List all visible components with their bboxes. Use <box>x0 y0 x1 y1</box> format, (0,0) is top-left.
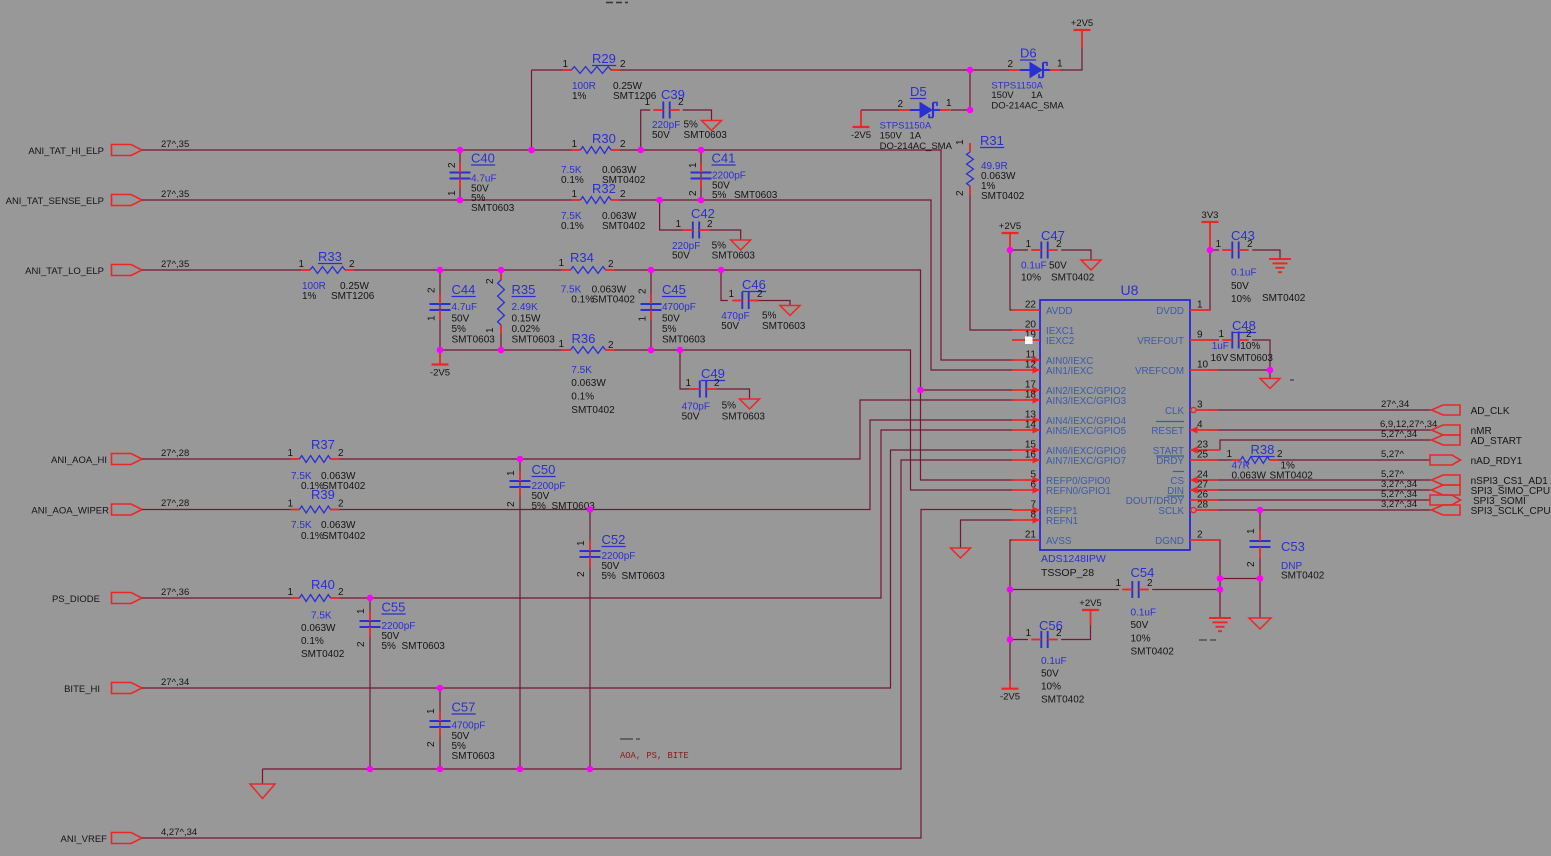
svg-text:1: 1 <box>558 258 564 269</box>
ground C47 <box>1081 260 1101 270</box>
resistor R32 <box>572 199 581 201</box>
svg-text:0.1uF: 0.1uF <box>1041 656 1067 667</box>
svg-text:1: 1 <box>1215 239 1221 250</box>
svg-text:1: 1 <box>287 499 293 510</box>
svg-text:2: 2 <box>955 190 966 196</box>
svg-text:CLK: CLK <box>1165 406 1185 417</box>
svg-text:0.1%: 0.1% <box>301 636 324 647</box>
pin 27 DIN <box>1190 489 1218 491</box>
svg-text:ANI_TAT_LO_ELP: ANI_TAT_LO_ELP <box>25 266 104 277</box>
svg-text:-2V5: -2V5 <box>851 130 871 141</box>
junction (680,350) <box>677 347 684 354</box>
svg-text:27^,34: 27^,34 <box>1381 399 1409 410</box>
svg-text:SMT0603: SMT0603 <box>1230 353 1274 364</box>
pin 11 AIN0/IEXC <box>1012 359 1040 361</box>
svg-text:AIN5/IEXC/GPIO5: AIN5/IEXC/GPIO5 <box>1046 426 1127 437</box>
wire ANI_VREF row to REFP1 riser <box>142 510 1012 839</box>
junction (590,509.5) <box>587 506 594 513</box>
wire VREFCOM ground drop <box>1269 370 1271 379</box>
svg-text:27^,35: 27^,35 <box>161 259 189 270</box>
svg-text:1: 1 <box>1025 628 1031 639</box>
svg-text:REFN0/GPIO1: REFN0/GPIO1 <box>1046 486 1111 497</box>
wire R36 row left <box>440 349 562 351</box>
power +2V5 (C56) <box>1082 609 1099 611</box>
capacitor C41 <box>691 172 712 174</box>
svg-text:SMT0402: SMT0402 <box>602 221 646 232</box>
svg-text:1uF: 1uF <box>1212 341 1229 352</box>
svg-text:1: 1 <box>298 259 304 270</box>
svg-text:SMT0402: SMT0402 <box>981 191 1025 202</box>
wire C57 column <box>439 688 441 769</box>
svg-text:1: 1 <box>356 608 367 614</box>
svg-text:D5: D5 <box>910 84 927 99</box>
capacitor C47 <box>1040 242 1042 259</box>
op-amp U8 ADS1248IPW body <box>1040 300 1190 550</box>
port SPI3_SOMI <box>1430 495 1461 505</box>
pin 23 START <box>1190 449 1220 451</box>
svg-text:AD_START: AD_START <box>1471 436 1522 447</box>
wire C42 to ground <box>709 230 741 240</box>
capacitor C57 <box>430 720 451 722</box>
svg-text:50V: 50V <box>672 251 690 262</box>
port ANI_VREF <box>112 833 143 844</box>
junction (1220,589.5) <box>1217 586 1224 593</box>
pin 21 AVSS <box>1012 539 1040 541</box>
wire C39 branch <box>641 110 651 150</box>
wire R33 to R34 <box>354 269 562 271</box>
wire D5 pin1 to junction <box>951 109 971 111</box>
capacitor C52 <box>580 550 601 552</box>
svg-text:2: 2 <box>338 499 344 510</box>
svg-text:SMT0603: SMT0603 <box>722 412 766 423</box>
wire capacitor ground bus to AIN7 riser <box>263 460 1013 769</box>
pin 24 CS <box>1190 479 1218 481</box>
wire C46 to ground <box>754 301 790 306</box>
junction (1220,578.5) <box>1217 575 1224 582</box>
svg-text:2.49K: 2.49K <box>512 302 538 313</box>
wire C45 column <box>650 270 652 350</box>
svg-text:SMT0402: SMT0402 <box>1262 293 1306 304</box>
svg-text:0.1uF: 0.1uF <box>1131 608 1157 619</box>
svg-text:2: 2 <box>338 448 344 459</box>
svg-text:2: 2 <box>1247 239 1253 250</box>
svg-text:27^,28: 27^,28 <box>161 448 189 459</box>
svg-text:SMT0603: SMT0603 <box>622 571 666 582</box>
svg-text:VREFCOM: VREFCOM <box>1135 366 1184 377</box>
svg-text:27^,28: 27^,28 <box>161 498 189 509</box>
svg-text:AIN7/IEXC/GPIO7: AIN7/IEXC/GPIO7 <box>1046 456 1126 467</box>
wire START to AD_START port <box>1220 440 1433 450</box>
svg-text:1: 1 <box>1197 300 1203 311</box>
wire C43 to earth ground <box>1252 250 1280 259</box>
svg-text:2: 2 <box>338 587 344 598</box>
svg-text:0.1%: 0.1% <box>561 221 584 232</box>
wire VREFOUT to C48 <box>1208 339 1219 341</box>
svg-text:1: 1 <box>675 219 681 230</box>
svg-text:2: 2 <box>620 189 626 200</box>
port ANI_TAT_SENSE_ELP <box>112 195 143 206</box>
pin 14 AIN5/IEXC/GPIO5 <box>1012 429 1040 431</box>
svg-text:2: 2 <box>608 340 614 351</box>
svg-text:4700pF: 4700pF <box>662 302 696 313</box>
svg-text:2: 2 <box>447 162 458 168</box>
pin 25 DRDY <box>1190 459 1218 461</box>
blanket note AOA, PS, BITE <box>620 738 633 740</box>
svg-text:SMT0603: SMT0603 <box>734 190 778 201</box>
svg-text:C45: C45 <box>662 282 686 297</box>
port AD_CLK <box>1432 405 1461 415</box>
earth ground C43 <box>1269 258 1291 260</box>
port ANI_AOA_WIPER <box>112 504 143 515</box>
wire C48 to VREFCOM corner <box>1252 340 1270 370</box>
svg-text:2: 2 <box>356 641 367 647</box>
junction (1270,370) <box>1267 367 1274 374</box>
artifact dashes near DGND <box>1199 639 1207 641</box>
svg-text:1%: 1% <box>302 291 317 302</box>
svg-text:2: 2 <box>707 219 713 230</box>
wire C53 bottom to ground <box>1259 558 1261 618</box>
wire R38 to nAD_RDY1 port <box>1279 459 1431 461</box>
svg-text:2: 2 <box>638 288 649 294</box>
port ANI_AOA_HI <box>112 454 143 465</box>
svg-text:1: 1 <box>638 316 649 322</box>
svg-text:50V: 50V <box>652 130 670 141</box>
svg-text:SMT0402: SMT0402 <box>1051 273 1095 284</box>
resistor R39 <box>291 509 300 511</box>
svg-text:SMT1206: SMT1206 <box>331 291 375 302</box>
wire C47 to ground <box>1061 250 1091 260</box>
pin 16 AIN7/IEXC/GPIO7 <box>1012 459 1040 461</box>
pin 28 SCLK <box>1190 509 1218 511</box>
svg-text:5,27^,34: 5,27^,34 <box>1381 429 1417 440</box>
wire AVDD column from +2V5 <box>1010 250 1012 310</box>
ground REFN1 <box>951 548 971 558</box>
wire C56 row <box>1010 639 1028 641</box>
svg-text:R38: R38 <box>1251 442 1275 457</box>
svg-text:3: 3 <box>1197 400 1203 411</box>
svg-text:1: 1 <box>685 378 691 389</box>
junction (970,70) <box>967 67 974 74</box>
svg-text:50V: 50V <box>1041 669 1059 680</box>
svg-text:SMT0603: SMT0603 <box>762 321 806 332</box>
svg-text:5%: 5% <box>382 641 397 652</box>
svg-text:27^,36: 27^,36 <box>161 587 189 598</box>
wire AVSS column <box>1010 540 1012 680</box>
wire RESET row to port <box>1208 429 1432 431</box>
svg-text:SMT0402: SMT0402 <box>1281 571 1325 582</box>
svg-text:1: 1 <box>644 97 650 108</box>
capacitor C53 DNP <box>1250 540 1271 542</box>
wire R36 output to REFN0 riser <box>615 350 1013 490</box>
junction (501,270) <box>498 267 505 274</box>
svg-text:22: 22 <box>1025 300 1037 311</box>
pin 9 VREFOUT <box>1190 339 1218 341</box>
svg-text:2: 2 <box>620 59 626 70</box>
svg-text:50V: 50V <box>452 314 470 325</box>
svg-text:27^,34: 27^,34 <box>161 677 189 688</box>
svg-text:C50: C50 <box>532 462 556 477</box>
wire C56 to +2V5 corner <box>1061 625 1090 640</box>
svg-text:C41: C41 <box>712 151 736 166</box>
svg-text:DO-214AC_SMA: DO-214AC_SMA <box>880 141 953 152</box>
svg-text:21: 21 <box>1025 530 1037 541</box>
svg-text:2: 2 <box>1056 239 1062 250</box>
svg-text:2: 2 <box>620 139 626 150</box>
port nAD_RDY1 <box>1430 455 1461 465</box>
wire C39 to ground <box>683 110 712 121</box>
junction (701,150) <box>698 147 705 154</box>
svg-text:1: 1 <box>427 315 438 321</box>
svg-text:R32: R32 <box>592 181 616 196</box>
wire C44 column <box>439 270 441 350</box>
wire DRDY to R38 <box>1208 459 1232 461</box>
svg-text:10%: 10% <box>1021 273 1041 284</box>
svg-text:16V: 16V <box>1211 353 1229 364</box>
svg-text:2: 2 <box>426 741 437 747</box>
svg-text:D6: D6 <box>1020 46 1037 61</box>
svg-text:ANI_AOA_HI: ANI_AOA_HI <box>51 455 107 466</box>
wire ANI_TAT_SENSE row to R32 <box>142 199 572 201</box>
svg-text:nAD_RDY1: nAD_RDY1 <box>1471 456 1523 467</box>
svg-text:1: 1 <box>955 139 966 145</box>
svg-text:+2V5: +2V5 <box>999 221 1021 232</box>
power +2V5 (C47) <box>1002 232 1019 234</box>
junction (970,110) <box>967 107 974 114</box>
svg-text:SMT0603: SMT0603 <box>471 203 515 214</box>
port ANI_TAT_HI_ELP <box>112 145 143 156</box>
pin 17 AIN2/IEXC/GPIO2 <box>1012 389 1040 391</box>
junction (590,769) <box>587 766 594 773</box>
capacitor C44 <box>430 303 451 305</box>
wire D6 to +2V5 corner <box>1059 48 1082 70</box>
wire ANI_TAT_LO row to R33 <box>142 269 301 271</box>
no-connect square IEXC2 <box>1025 337 1033 345</box>
svg-text:AOA, PS, BITE: AOA, PS, BITE <box>620 751 689 761</box>
svg-text:U8: U8 <box>1121 282 1139 298</box>
svg-text:1%: 1% <box>572 91 587 102</box>
svg-text:R40: R40 <box>311 577 335 592</box>
svg-text:2: 2 <box>897 99 903 110</box>
svg-text:4.7uF: 4.7uF <box>452 302 478 313</box>
svg-text:SMT0603: SMT0603 <box>712 251 756 262</box>
capacitor C54 <box>1131 581 1133 598</box>
svg-text:AD_CLK: AD_CLK <box>1471 406 1510 417</box>
capacitor C45 <box>641 303 662 305</box>
port BITE_HI <box>112 683 143 694</box>
svg-text:0.063W: 0.063W <box>321 520 356 531</box>
junction (440,769) <box>437 766 444 773</box>
wire ANI_AOA_HI row to R37 <box>142 458 291 460</box>
port SPI3_SCLK_CPU <box>1432 505 1461 515</box>
svg-text:AVDD: AVDD <box>1046 306 1073 317</box>
wire DGND to C53 link <box>1220 578 1260 580</box>
resistor R38 <box>1232 459 1241 461</box>
pin 1 DVDD <box>1190 309 1210 311</box>
svg-text:ANI_TAT_SENSE_ELP: ANI_TAT_SENSE_ELP <box>6 196 104 207</box>
power +2V5 (top, D6) <box>1074 29 1091 31</box>
svg-text:R33: R33 <box>318 249 342 264</box>
svg-text:150V: 150V <box>991 90 1014 101</box>
capacitor C50 <box>510 480 531 482</box>
wire REFN1 to ground <box>961 520 1013 548</box>
svg-text:AIN3/IEXC/GPIO3: AIN3/IEXC/GPIO3 <box>1046 396 1127 407</box>
wire R34 output row to VREF riser <box>615 270 1013 480</box>
svg-text:SMT0402: SMT0402 <box>1041 695 1085 706</box>
svg-text:C48: C48 <box>1232 318 1256 333</box>
wire R39 output to AIN4 riser <box>340 420 1013 510</box>
pin 20 IEXC1 <box>1012 329 1040 331</box>
svg-text:2: 2 <box>757 289 763 300</box>
pin 15 AIN6/IEXC/GPIO6 <box>1012 449 1040 451</box>
svg-text:50V: 50V <box>682 412 700 423</box>
svg-text:1: 1 <box>1025 239 1031 250</box>
svg-text:1: 1 <box>946 98 952 109</box>
power 3V3 (DVDD) <box>1202 221 1219 223</box>
wire ANI_AOA_WIPER row to R39 <box>142 509 291 511</box>
svg-text:1: 1 <box>287 448 293 459</box>
svg-text:1: 1 <box>562 59 568 70</box>
pin 12 AIN1/IEXC <box>1012 369 1040 371</box>
junction (460,150) <box>457 147 464 154</box>
wire CLK row to port <box>1208 409 1432 411</box>
svg-text:25: 25 <box>1197 450 1209 461</box>
port nSPI3_CS1_AD1 <box>1432 475 1461 485</box>
svg-text:27^,35: 27^,35 <box>161 139 189 150</box>
wire R37 output to AIN3 riser <box>340 400 1013 459</box>
junction (440,688) <box>437 685 444 692</box>
wire -2V5 to D5 <box>861 109 899 111</box>
resistor R37 <box>291 458 300 460</box>
pin 4 RESET <box>1190 429 1218 431</box>
wire VREFCOM row <box>1208 369 1270 371</box>
wire R29 row to D6 <box>620 69 1009 71</box>
svg-text:0.063W: 0.063W <box>1232 471 1267 482</box>
junction (651,270) <box>648 267 655 274</box>
svg-text:5%: 5% <box>532 501 547 512</box>
svg-text:10: 10 <box>1197 360 1209 371</box>
capacitor C56 <box>1040 631 1042 648</box>
svg-text:1: 1 <box>1226 449 1232 460</box>
svg-text:10%: 10% <box>1131 634 1151 645</box>
junction (531.5,150) <box>528 147 535 154</box>
pin 26 DOUT/DRDY <box>1190 499 1218 501</box>
wire C42 branch <box>660 200 683 230</box>
ground C39 <box>702 121 722 131</box>
svg-text:1A: 1A <box>1031 90 1043 101</box>
resistor R33 <box>301 269 310 271</box>
svg-text:R36: R36 <box>572 331 596 346</box>
capacitor C55 <box>360 620 381 622</box>
svg-text:TSSOP_28: TSSOP_28 <box>1041 567 1094 579</box>
svg-text:50V: 50V <box>1131 620 1149 631</box>
svg-text:2: 2 <box>678 97 684 108</box>
svg-text:0.1uF: 0.1uF <box>1021 261 1047 272</box>
pin 8 REFN1 <box>1012 519 1040 521</box>
wire DVDD column from 3V3 <box>1206 250 1210 310</box>
wire R40 output to AIN5 riser <box>340 430 1013 598</box>
svg-text:SMT0603: SMT0603 <box>512 335 556 346</box>
svg-text:1: 1 <box>571 189 577 200</box>
svg-text:C40: C40 <box>471 151 495 166</box>
svg-text:5%: 5% <box>712 190 727 201</box>
svg-text:C57: C57 <box>452 700 476 715</box>
svg-text:SMT0603: SMT0603 <box>684 130 728 141</box>
svg-text:SMT0402: SMT0402 <box>571 405 615 416</box>
junction (370,598) <box>367 595 374 602</box>
svg-text:SMT0402: SMT0402 <box>322 531 366 542</box>
port PS_DIODE <box>112 593 143 604</box>
svg-text:1: 1 <box>506 470 517 476</box>
wire R35 column bottom stub <box>500 334 502 350</box>
svg-text:0.1%: 0.1% <box>561 175 584 186</box>
artifact dash near VREFCOM ground <box>1290 379 1294 381</box>
resistor R31 <box>969 143 971 152</box>
svg-text:0.063W: 0.063W <box>571 378 606 389</box>
svg-text:C44: C44 <box>452 282 476 297</box>
svg-text:3V3: 3V3 <box>1202 210 1219 221</box>
svg-text:50V: 50V <box>1231 281 1249 292</box>
capacitor C39 <box>662 102 664 119</box>
svg-text:PS_DIODE: PS_DIODE <box>52 594 100 605</box>
wire R30 output row to AIN0 riser <box>620 150 1012 360</box>
wire C47 row <box>1010 249 1028 251</box>
svg-text:28: 28 <box>1197 500 1209 511</box>
ground bus triangle <box>250 784 275 799</box>
sheet artifact dashes top <box>606 2 613 4</box>
svg-text:5%: 5% <box>762 311 777 322</box>
junction (651,350) <box>648 347 655 354</box>
svg-text:7.5K: 7.5K <box>311 611 332 622</box>
svg-text:2: 2 <box>608 259 614 270</box>
ground C49 <box>740 399 760 409</box>
wire AIN2 branch <box>921 389 1013 391</box>
svg-text:DGND: DGND <box>1155 536 1184 547</box>
svg-text:1: 1 <box>688 162 699 168</box>
ground VREFCOM <box>1260 379 1280 389</box>
junction (1260,578.5) <box>1257 575 1264 582</box>
wire C46 branch <box>721 270 728 301</box>
svg-text:1A: 1A <box>910 130 922 141</box>
junction (920.5,390) <box>917 387 924 394</box>
svg-text:ADS1248IPW: ADS1248IPW <box>1041 553 1106 565</box>
svg-text:0.1uF: 0.1uF <box>1231 268 1257 279</box>
svg-text:1: 1 <box>426 708 437 714</box>
ground C42 <box>731 240 751 250</box>
wire DIN row to port <box>1208 489 1432 491</box>
svg-text:AIN1/IEXC: AIN1/IEXC <box>1046 366 1093 377</box>
power -2V5 (C44) <box>432 363 449 365</box>
svg-text:2: 2 <box>576 571 587 577</box>
svg-text:2: 2 <box>427 287 438 293</box>
svg-text:DRDY: DRDY <box>1156 456 1184 467</box>
svg-text:0.02%: 0.02% <box>512 324 540 335</box>
svg-text:1: 1 <box>571 139 577 150</box>
svg-text:2: 2 <box>1147 578 1153 589</box>
pin 6 REFN0/GPIO1 <box>1012 489 1040 491</box>
pin 19 IEXC2 <box>1012 339 1040 341</box>
svg-text:1: 1 <box>1057 59 1063 70</box>
svg-text:2: 2 <box>485 278 496 284</box>
svg-text:1: 1 <box>485 327 496 333</box>
svg-text:SMT0603: SMT0603 <box>662 335 706 346</box>
svg-text:1: 1 <box>1115 578 1121 589</box>
svg-text:2: 2 <box>506 501 517 507</box>
svg-text:2: 2 <box>714 378 720 389</box>
svg-text:7.5K: 7.5K <box>571 365 592 376</box>
wire R32 output row to AIN1 riser <box>620 200 1012 370</box>
pin 13 AIN4/IEXC/GPIO4 <box>1012 419 1040 421</box>
svg-text:+2V5: +2V5 <box>1071 18 1093 29</box>
